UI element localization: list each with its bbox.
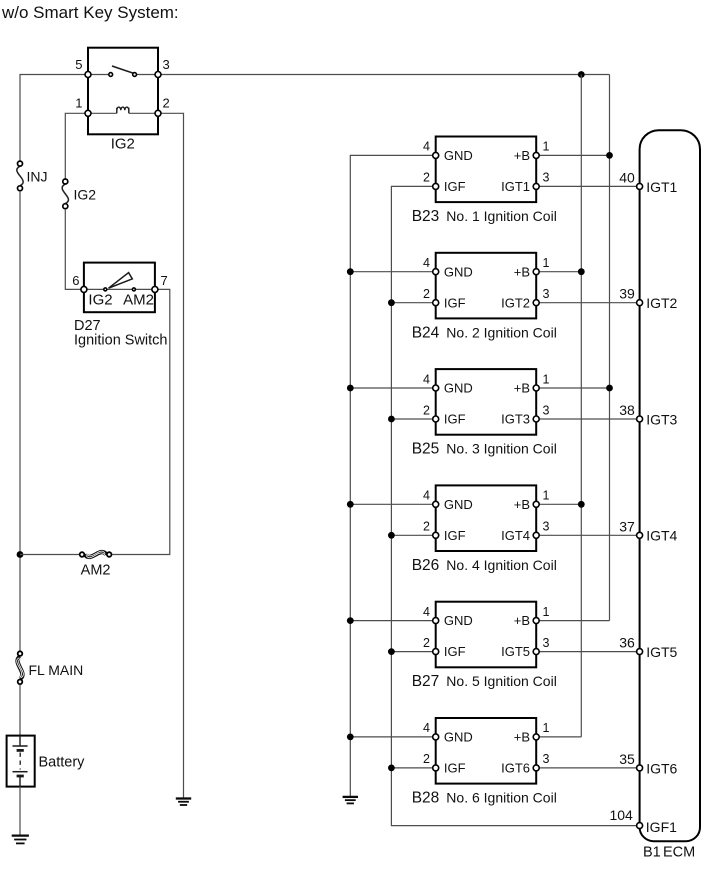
ground: relay coil return — [176, 799, 191, 806]
wire: coil 3 IGF to bus — [391, 418, 435, 420]
svg-text:3: 3 — [543, 171, 550, 185]
svg-text:7: 7 — [161, 273, 168, 288]
wire: +B bus B (rows 1,3,5) — [609, 75, 611, 621]
svg-text:IGT1: IGT1 — [501, 179, 530, 194]
svg-text:GND: GND — [444, 497, 473, 512]
svg-text:39: 39 — [619, 286, 635, 302]
junction: +B bus row 1 — [606, 152, 613, 159]
wire: AM2 fuse up to ignition switch pin7 — [112, 289, 170, 554]
svg-text:GND: GND — [444, 148, 473, 163]
wire: relay pin3 to +B buses — [158, 74, 610, 76]
fusible link AM2 — [80, 551, 112, 558]
svg-text:IG2: IG2 — [111, 136, 135, 153]
wire: coil 2 IGF to bus — [391, 302, 435, 304]
junction: +B bus row 3 — [606, 385, 613, 392]
svg-text:40: 40 — [619, 169, 635, 185]
fuse IG2 — [62, 179, 68, 209]
junction: IGF bus row 3 — [388, 416, 395, 423]
battery — [7, 736, 35, 787]
junction: IGF bus row 4 — [388, 532, 395, 539]
svg-text:2: 2 — [423, 287, 430, 301]
svg-text:IGF: IGF — [444, 295, 466, 310]
svg-text:IGT5: IGT5 — [646, 644, 677, 660]
svg-text:IGT2: IGT2 — [646, 295, 677, 311]
svg-text:3: 3 — [163, 57, 170, 72]
svg-text:2: 2 — [423, 752, 430, 766]
wire: relay pin2 down to ground — [158, 113, 184, 798]
wire: coil 5 +B to bus — [536, 620, 609, 622]
svg-text:2: 2 — [423, 636, 430, 650]
wire: IGF bus from coil 1 down to ECM IGF1 — [391, 186, 636, 825]
wire: +B bus A (rows 2,4,6) — [580, 75, 582, 737]
svg-text:B26: B26 — [412, 557, 440, 574]
svg-text:1: 1 — [543, 140, 550, 154]
svg-text:+B: +B — [514, 148, 530, 163]
svg-text:4: 4 — [423, 256, 430, 270]
svg-text:3: 3 — [543, 752, 550, 766]
wire: coil 4 IGT4 to ECM — [536, 534, 636, 536]
svg-text:4: 4 — [423, 721, 430, 735]
fuse INJ — [17, 161, 23, 191]
junction: IGF bus row 5 — [388, 648, 395, 655]
svg-text:IG2: IG2 — [88, 291, 112, 308]
svg-text:AM2: AM2 — [81, 563, 111, 579]
svg-text:3: 3 — [543, 636, 550, 650]
svg-text:IGT6: IGT6 — [646, 760, 677, 776]
svg-text:FL MAIN: FL MAIN — [29, 662, 84, 678]
junction: IGF bus row 2 — [388, 299, 395, 306]
svg-text:+B: +B — [514, 613, 530, 628]
svg-text:w/o Smart Key System:: w/o Smart Key System: — [1, 3, 179, 22]
wire: coil 2 GND to bus — [350, 271, 435, 273]
svg-text:+B: +B — [514, 497, 530, 512]
svg-text:GND: GND — [444, 264, 473, 279]
junction: GND bus row 4 — [347, 501, 354, 508]
wire: GND bus from coil 1 down to ground — [350, 155, 435, 796]
wire: coil 6 GND to bus — [350, 736, 435, 738]
svg-text:IGT3: IGT3 — [501, 412, 530, 427]
svg-text:B27: B27 — [412, 673, 440, 690]
svg-text:1: 1 — [543, 489, 550, 503]
svg-text:37: 37 — [619, 518, 635, 534]
svg-text:2: 2 — [423, 171, 430, 185]
wire: coil 6 +B to bus — [536, 736, 581, 738]
svg-text:1: 1 — [543, 605, 550, 619]
svg-text:B1: B1 — [643, 845, 661, 861]
svg-text:36: 36 — [619, 635, 635, 651]
svg-text:IGT6: IGT6 — [501, 761, 530, 776]
svg-text:3: 3 — [543, 520, 550, 534]
ECM B1 outline — [640, 130, 700, 841]
svg-text:IGT4: IGT4 — [646, 528, 677, 544]
svg-text:IGF: IGF — [444, 412, 466, 427]
svg-text:No. 6 Ignition Coil: No. 6 Ignition Coil — [446, 790, 557, 806]
svg-text:104: 104 — [609, 807, 633, 823]
svg-text:IG2: IG2 — [74, 187, 97, 203]
wire: junction to AM2 fuse — [20, 554, 79, 556]
wire: coil 4 GND to bus — [350, 503, 435, 505]
svg-text:Ignition Switch: Ignition Switch — [74, 333, 168, 349]
ECM pin 35 terminal — [637, 765, 643, 771]
svg-text:38: 38 — [619, 402, 635, 418]
svg-text:IGF: IGF — [444, 179, 466, 194]
relay pin 1 terminal — [85, 110, 91, 116]
svg-text:1: 1 — [543, 721, 550, 735]
svg-text:IGF1: IGF1 — [646, 819, 677, 835]
svg-text:4: 4 — [423, 489, 430, 503]
junction: GND bus row 5 — [347, 617, 354, 624]
wire: coil 6 IGT6 to ECM — [536, 767, 636, 769]
wire: FL MAIN to battery — [19, 685, 21, 736]
relay IG2 — [88, 48, 158, 135]
svg-text:GND: GND — [444, 730, 473, 745]
svg-text:No. 1 Ignition Coil: No. 1 Ignition Coil — [446, 208, 557, 224]
wire: battery to ground — [19, 787, 21, 835]
wire: coil 5 IGF to bus — [391, 651, 435, 653]
wire: relay pin5 to left rail, down to INJ fuse — [20, 75, 88, 162]
svg-text:IGT5: IGT5 — [501, 644, 530, 659]
svg-text:GND: GND — [444, 381, 473, 396]
svg-text:B23: B23 — [412, 208, 440, 225]
ignition coil B23 — [433, 137, 540, 203]
svg-text:IGF: IGF — [444, 528, 466, 543]
fusible link FL MAIN — [17, 651, 24, 684]
svg-text:+B: +B — [514, 264, 530, 279]
ignition switch pin 7 terminal — [152, 286, 158, 292]
junction: GND bus row 6 — [347, 734, 354, 741]
svg-text:ECM: ECM — [663, 845, 695, 861]
svg-text:GND: GND — [444, 613, 473, 628]
ignition coil B24 — [433, 253, 540, 319]
relay pin 2 terminal — [155, 110, 161, 116]
ECM pin 39 terminal — [637, 300, 643, 306]
wire: coil 3 GND to bus — [350, 387, 435, 389]
wire: relay pin1 to IG2 fuse — [65, 113, 88, 179]
ignition coil B28 — [433, 718, 540, 784]
relay pin 3 terminal — [155, 72, 161, 78]
svg-text:B24: B24 — [412, 324, 440, 341]
ignition switch D27 — [84, 263, 155, 313]
junction: IGF bus row 6 — [388, 765, 395, 772]
svg-text:No. 4 Ignition Coil: No. 4 Ignition Coil — [446, 557, 557, 573]
svg-text:IGT2: IGT2 — [501, 295, 530, 310]
svg-text:No. 3 Ignition Coil: No. 3 Ignition Coil — [446, 441, 557, 457]
ground: battery — [12, 836, 29, 844]
wire: coil 2 IGT2 to ECM — [536, 302, 636, 304]
svg-text:5: 5 — [75, 57, 82, 72]
svg-text:Battery: Battery — [39, 755, 86, 771]
junction: +B bus A at top feed — [578, 71, 585, 78]
svg-text:IGT1: IGT1 — [646, 179, 677, 195]
svg-text:1: 1 — [543, 256, 550, 270]
relay pin 5 terminal — [85, 72, 91, 78]
svg-text:No. 5 Ignition Coil: No. 5 Ignition Coil — [446, 673, 557, 689]
svg-text:IGF: IGF — [444, 761, 466, 776]
ignition key wedge — [109, 273, 133, 289]
wire: coil 1 +B to bus — [536, 154, 609, 156]
svg-text:6: 6 — [72, 273, 79, 288]
ECM pin 104 terminal — [637, 823, 643, 829]
junction: +B bus row 4 — [578, 501, 585, 508]
junction: GND bus row 2 — [347, 268, 354, 275]
ECM pin 36 terminal — [637, 649, 643, 655]
wire: left rail INJ fuse down to FL MAIN fuse — [19, 191, 21, 651]
svg-text:1: 1 — [75, 96, 82, 111]
wire: coil 5 IGT5 to ECM — [536, 651, 636, 653]
svg-text:AM2: AM2 — [123, 291, 154, 308]
svg-text:IGT3: IGT3 — [646, 411, 677, 427]
ignition coil B27 — [433, 602, 540, 668]
svg-text:3: 3 — [543, 403, 550, 417]
svg-text:2: 2 — [423, 403, 430, 417]
svg-text:3: 3 — [543, 287, 550, 301]
wire: coil 5 GND to bus — [350, 620, 435, 622]
svg-text:+B: +B — [514, 381, 530, 396]
svg-text:2: 2 — [423, 520, 430, 534]
wire: coil 6 IGF to bus — [391, 767, 435, 769]
svg-text:INJ: INJ — [27, 169, 48, 185]
ECM pin 37 terminal — [637, 532, 643, 538]
junction: GND bus row 3 — [347, 385, 354, 392]
svg-text:35: 35 — [619, 751, 635, 767]
svg-text:B25: B25 — [412, 441, 440, 458]
svg-text:2: 2 — [163, 96, 170, 111]
svg-text:4: 4 — [423, 605, 430, 619]
ignition switch pin 6 terminal — [81, 286, 87, 292]
relay coil winding — [88, 112, 158, 114]
ignition coil B25 — [433, 369, 540, 435]
relay contact blade — [112, 66, 134, 73]
junction: left rail / AM2 branch — [17, 551, 24, 558]
wire: IG2 fuse down to ignition switch pin6 — [65, 209, 84, 289]
junction: +B bus row 2 — [578, 268, 585, 275]
svg-text:IGF: IGF — [444, 644, 466, 659]
ground: ignition coils — [343, 797, 358, 804]
wire: coil 3 IGT3 to ECM — [536, 418, 636, 420]
wire: coil 2 +B to bus — [536, 271, 581, 273]
svg-text:1: 1 — [543, 372, 550, 386]
svg-text:+B: +B — [514, 730, 530, 745]
svg-text:No. 2 Ignition Coil: No. 2 Ignition Coil — [446, 324, 557, 340]
svg-text:4: 4 — [423, 140, 430, 154]
svg-text:B28: B28 — [412, 790, 440, 807]
wire: coil 3 +B to bus — [536, 387, 609, 389]
wire: coil 4 +B to bus — [536, 503, 581, 505]
ECM pin 38 terminal — [637, 416, 643, 422]
ignition coil B26 — [433, 485, 540, 551]
ECM pin 40 terminal — [637, 183, 643, 189]
wire: coil 1 IGT1 to ECM — [536, 185, 636, 187]
wire: coil 4 IGF to bus — [391, 534, 435, 536]
svg-text:4: 4 — [423, 372, 430, 386]
svg-text:IGT4: IGT4 — [501, 528, 530, 543]
